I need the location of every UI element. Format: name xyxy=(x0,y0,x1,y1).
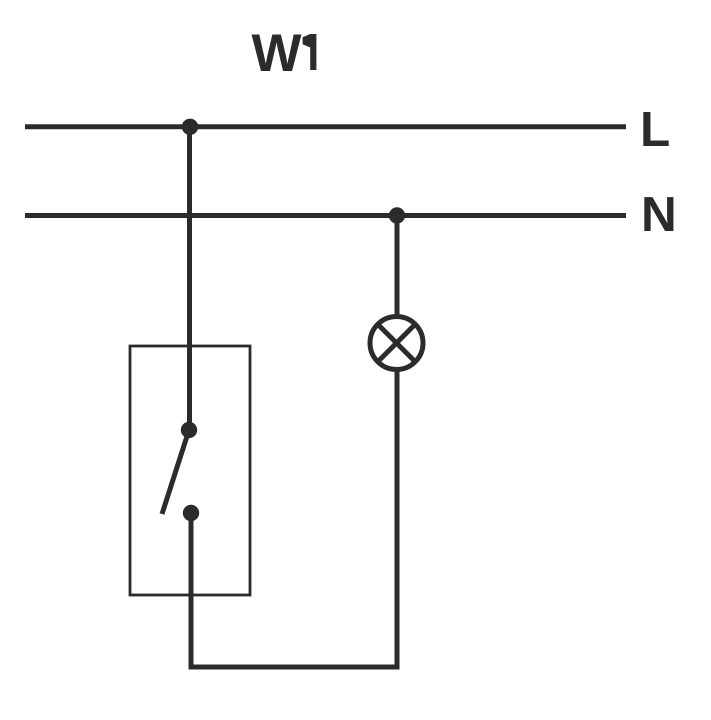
wire from N junction down to lamp xyxy=(395,216,400,319)
switch label W1 (digit 1) xyxy=(303,34,317,70)
svg-text:L: L xyxy=(640,102,670,157)
wire: neutral conductor N xyxy=(25,213,626,218)
switch W1 enclosure box xyxy=(130,346,250,595)
junction dot on L xyxy=(182,119,198,135)
junction dot on N xyxy=(389,207,405,223)
wire from lamp bottom, down, across bottom, up to switch output xyxy=(191,370,397,668)
lamp E1 cross stroke 2 xyxy=(378,325,415,362)
switch lower contact dot xyxy=(183,505,199,521)
wire from L junction down to switch xyxy=(187,127,192,430)
svg-text:W: W xyxy=(252,24,302,83)
switch upper contact dot xyxy=(181,422,197,438)
svg-text:N: N xyxy=(641,187,677,242)
lamp E1 cross stroke 1 xyxy=(378,325,415,362)
switch lever xyxy=(162,430,189,514)
lamp E1 circle xyxy=(370,317,423,370)
wire: line conductor L xyxy=(25,124,626,129)
